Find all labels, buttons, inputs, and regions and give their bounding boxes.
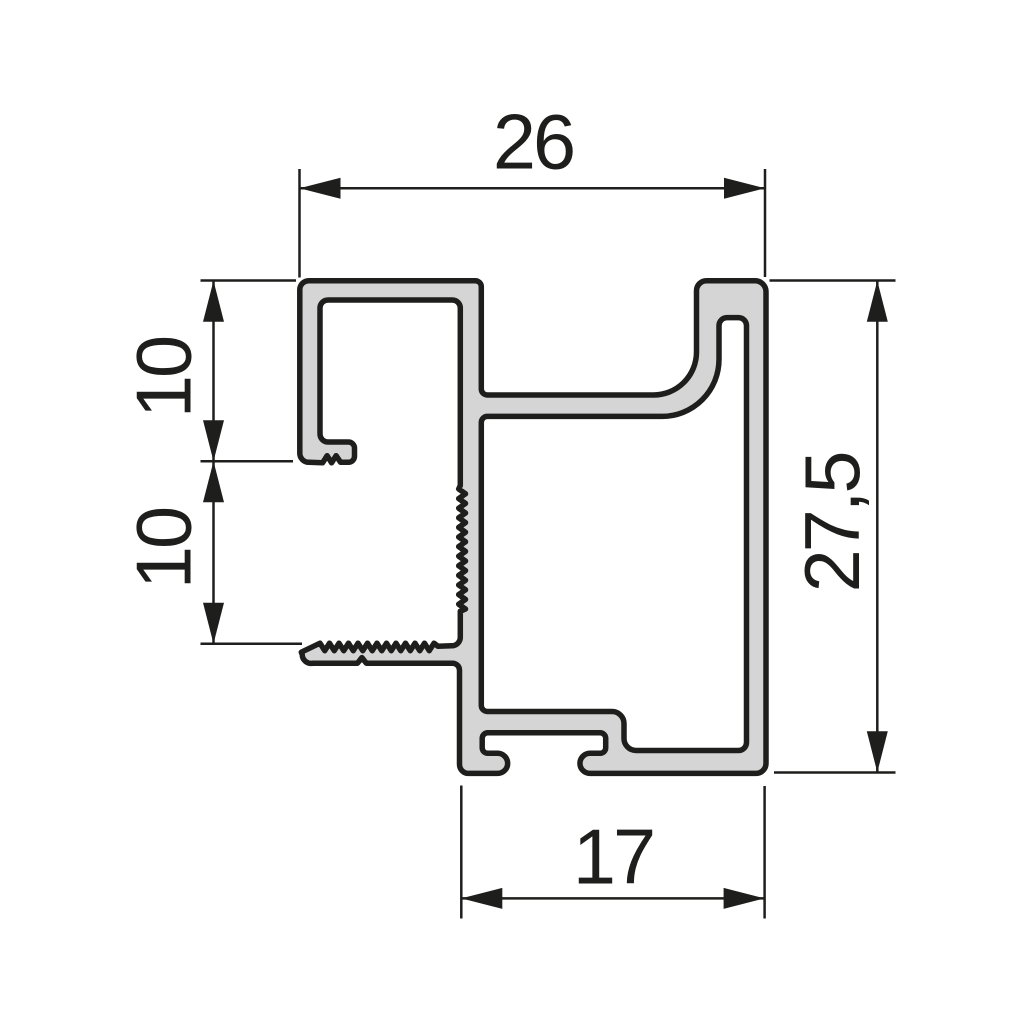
- dimension 27,5: arrowhead top: [867, 281, 888, 322]
- svg-text:10: 10: [122, 337, 208, 418]
- aluminium profile cross-section body: [300, 281, 766, 774]
- dimension 10 upper: dimension line: [212, 281, 215, 462]
- dimension 26: extension line right: [764, 169, 767, 277]
- dimension 17: arrowhead right: [724, 888, 765, 909]
- dimension 10 lower: dimension line: [212, 461, 215, 643]
- dimension 10 lower: arrowhead top: [203, 461, 224, 502]
- dimension 10 upper: arrowhead bottom: [203, 420, 224, 461]
- dimension 10 upper/lower: extension line middle: [201, 460, 294, 463]
- dimension 26: dimension line: [300, 187, 766, 190]
- dimension 26: arrowhead right: [724, 178, 765, 199]
- svg-text:27,5: 27,5: [790, 454, 876, 593]
- dimension 17: extension line right: [763, 786, 766, 919]
- dimension 27,5: arrowhead bottom: [867, 731, 888, 772]
- dimension 10 lower: arrowhead bottom: [203, 603, 224, 644]
- dimension 27,5: extension line top: [770, 279, 896, 282]
- dimension 10 lower: extension line bottom: [201, 642, 303, 645]
- dimension 27,5: extension line bottom: [774, 771, 896, 774]
- svg-text:10: 10: [122, 508, 208, 589]
- dimension 26: arrowhead left: [300, 178, 341, 199]
- dimension 17: dimension line: [461, 897, 764, 900]
- dimension 10 upper: extension line top: [201, 279, 297, 282]
- dimension 17: arrowhead left: [461, 888, 502, 909]
- dimension 17: extension line left: [460, 786, 463, 919]
- dimension 10 upper: arrowhead top: [203, 281, 224, 322]
- svg-text:26: 26: [493, 100, 573, 186]
- dimension 27,5: dimension line: [876, 281, 879, 773]
- svg-text:17: 17: [573, 814, 653, 900]
- dimension 26: extension line left: [298, 169, 301, 278]
